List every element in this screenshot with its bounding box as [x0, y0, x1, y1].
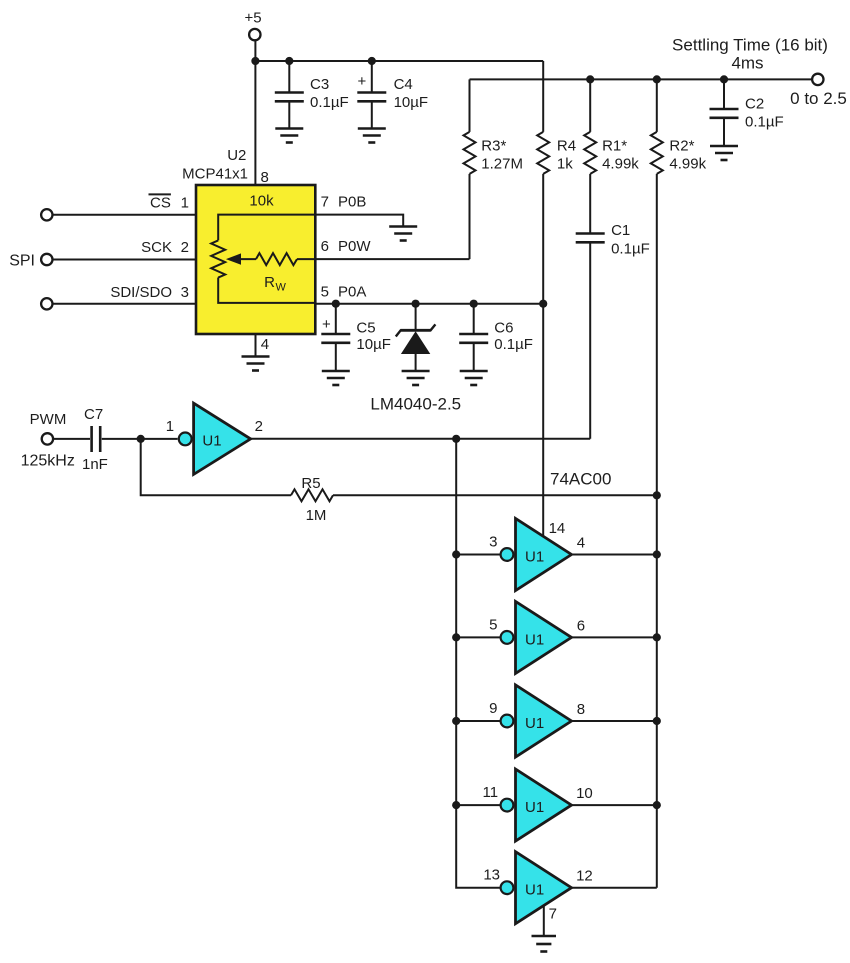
- svg-text:R4: R4: [557, 137, 576, 154]
- svg-text:C7: C7: [84, 406, 103, 423]
- svg-text:1: 1: [166, 418, 174, 435]
- svg-text:125kHz: 125kHz: [21, 453, 75, 470]
- svg-text:P0B: P0B: [338, 194, 366, 211]
- svg-text:P0W: P0W: [338, 238, 371, 255]
- svg-text:4: 4: [261, 336, 269, 353]
- svg-text:R: R: [264, 274, 275, 291]
- svg-text:3: 3: [489, 534, 497, 551]
- svg-text:U2: U2: [227, 147, 246, 164]
- svg-text:10: 10: [576, 785, 593, 802]
- svg-text:10µF: 10µF: [394, 94, 429, 111]
- svg-text:0.1µF: 0.1µF: [310, 94, 349, 111]
- svg-text:11: 11: [483, 784, 499, 801]
- svg-text:C6: C6: [494, 320, 513, 337]
- svg-text:R2*: R2*: [669, 137, 694, 154]
- svg-text:SDI/SDO: SDI/SDO: [110, 284, 172, 301]
- svg-text:8: 8: [577, 701, 585, 718]
- svg-text:6: 6: [321, 238, 329, 255]
- svg-text:4.99k: 4.99k: [602, 156, 639, 173]
- svg-text:SPI: SPI: [9, 253, 35, 270]
- svg-text:R5: R5: [301, 475, 320, 492]
- svg-text:0.1µF: 0.1µF: [494, 336, 533, 353]
- svg-text:0.1µF: 0.1µF: [745, 114, 784, 131]
- svg-text:+: +: [358, 73, 367, 90]
- svg-text:C2: C2: [745, 96, 764, 113]
- svg-text:C4: C4: [394, 76, 413, 93]
- svg-text:U1: U1: [525, 882, 544, 899]
- svg-text:12: 12: [576, 868, 593, 885]
- svg-text:U1: U1: [525, 799, 544, 816]
- svg-text:2: 2: [181, 239, 189, 256]
- svg-text:1nF: 1nF: [82, 456, 108, 473]
- svg-text:C5: C5: [356, 320, 375, 337]
- svg-text:U1: U1: [202, 432, 221, 449]
- svg-text:P0A: P0A: [338, 283, 366, 300]
- svg-text:R3*: R3*: [481, 137, 506, 154]
- svg-text:6: 6: [577, 617, 585, 634]
- svg-text:Settling Time (16 bit): Settling Time (16 bit): [672, 35, 828, 54]
- svg-text:U1: U1: [525, 631, 544, 648]
- svg-text:MCP41x1: MCP41x1: [182, 166, 248, 183]
- svg-text:+5: +5: [244, 10, 261, 27]
- svg-text:1k: 1k: [557, 156, 573, 173]
- svg-text:74AC00: 74AC00: [550, 470, 611, 489]
- svg-text:LM4040-2.5: LM4040-2.5: [370, 395, 461, 414]
- svg-text:0.1µF: 0.1µF: [611, 241, 650, 258]
- svg-text:W: W: [276, 282, 287, 294]
- svg-text:13: 13: [483, 867, 500, 884]
- svg-text:PWM: PWM: [30, 411, 67, 428]
- svg-text:1M: 1M: [306, 507, 327, 524]
- svg-text:9: 9: [489, 700, 497, 717]
- svg-text:10µF: 10µF: [356, 336, 391, 353]
- svg-text:C1: C1: [611, 222, 630, 239]
- svg-text:U1: U1: [525, 715, 544, 732]
- svg-text:SCK: SCK: [141, 239, 172, 256]
- svg-text:1.27M: 1.27M: [481, 156, 523, 173]
- svg-text:+: +: [322, 316, 331, 333]
- svg-text:4ms: 4ms: [731, 53, 763, 72]
- svg-text:R1*: R1*: [602, 137, 627, 154]
- svg-text:3: 3: [181, 284, 189, 301]
- svg-text:7: 7: [549, 905, 557, 922]
- svg-text:4.99k: 4.99k: [669, 156, 706, 173]
- svg-text:5: 5: [489, 616, 497, 633]
- svg-text:7: 7: [321, 194, 329, 211]
- svg-text:14: 14: [549, 520, 566, 537]
- svg-text:1: 1: [181, 194, 189, 211]
- svg-text:5: 5: [321, 283, 329, 300]
- svg-text:0 to 2.5: 0 to 2.5: [790, 89, 847, 108]
- svg-text:CS: CS: [150, 194, 171, 211]
- svg-text:U1: U1: [525, 549, 544, 566]
- svg-text:4: 4: [577, 534, 585, 551]
- svg-text:C3: C3: [310, 76, 329, 93]
- svg-text:2: 2: [255, 418, 263, 435]
- svg-text:8: 8: [261, 169, 269, 186]
- svg-text:10k: 10k: [249, 193, 274, 210]
